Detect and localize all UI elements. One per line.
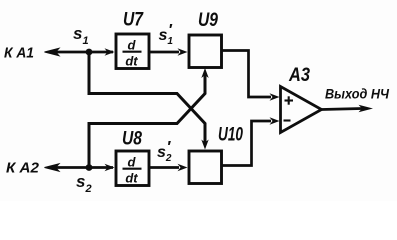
arrowhead into U7 <box>105 48 115 55</box>
differentiator U7 box <box>116 34 149 69</box>
wire cross path s2 to U9 <box>89 74 205 168</box>
arrowhead into A3 minus input <box>270 117 280 124</box>
svg-text:dt: dt <box>125 171 138 186</box>
output wire <box>322 109 363 110</box>
svg-text:К А2: К А2 <box>6 160 40 177</box>
svg-text:U7: U7 <box>123 10 144 31</box>
op-amp A3 triangle <box>281 87 322 133</box>
arrowhead into U10 <box>178 164 188 171</box>
arrowhead down into U10 top <box>201 140 208 150</box>
svg-text:d: d <box>128 155 137 170</box>
svg-text:А3: А3 <box>288 65 310 86</box>
svg-text:Выход НЧ: Выход НЧ <box>325 87 389 102</box>
U8 d/dt fraction <box>123 155 142 186</box>
svg-text:U8: U8 <box>122 129 142 150</box>
svg-text:К А1: К А1 <box>4 45 34 62</box>
svg-text:U10: U10 <box>218 125 243 146</box>
wire U8 to U10 <box>149 166 179 169</box>
node s2 junction dot <box>86 164 93 171</box>
block U9 box <box>189 35 222 68</box>
arrowhead into U9 <box>178 48 188 55</box>
wire s2 input to K A2 with left arrowhead <box>45 164 114 171</box>
wire cross path s1 to U10 <box>89 52 205 143</box>
U7 d/dt fraction <box>123 38 142 69</box>
block U10 box <box>189 151 222 184</box>
svg-text:dt: dt <box>125 54 138 69</box>
arrowhead up into U9 bottom <box>201 68 208 78</box>
node s1 junction dot <box>86 49 93 56</box>
output arrowhead <box>359 105 374 112</box>
A3 plus sign <box>285 96 294 104</box>
svg-text:d: d <box>128 38 137 53</box>
A3 minus sign <box>284 119 291 121</box>
wire U10 output to A3 minus input <box>222 121 272 166</box>
svg-text:U9: U9 <box>198 10 218 31</box>
arrowhead into A3 plus input <box>270 93 280 100</box>
wire s1 input to K A1 with left arrowhead <box>45 48 114 55</box>
arrowhead into U8 <box>105 164 115 171</box>
wire U9 output to A3 plus input <box>222 51 272 98</box>
differentiator U8 box <box>116 151 149 186</box>
wire U7 to U9 <box>149 51 179 54</box>
